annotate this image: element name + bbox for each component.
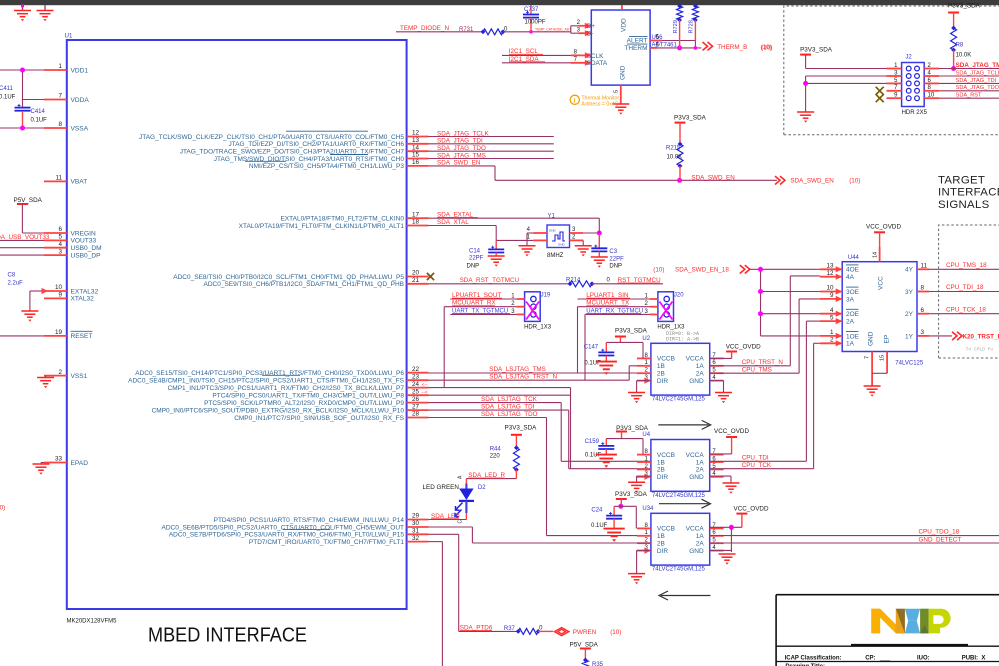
svg-text:GND: GND	[689, 474, 704, 481]
wire SDA_LED_R	[466, 478, 516, 480]
wire SDA_LSJTAG_TMS row22 to U2 2B	[429, 372, 651, 374]
wire J19 pin2 to U1 pin24	[443, 307, 445, 388]
svg-text:SDA_SWD_EN: SDA_SWD_EN	[437, 160, 481, 167]
svg-text:THERM: THERM	[624, 45, 647, 52]
svg-text:22PF: 22PF	[609, 256, 624, 262]
wire K20_TRST_B output	[929, 335, 952, 337]
wire ALERT-THERM tie	[694, 41, 696, 48]
wire GND_DETECT to edge	[710, 542, 999, 544]
svg-text:SDA_RST: SDA_RST	[956, 93, 982, 99]
U44 pin 1 1OE	[820, 335, 842, 337]
svg-text:CPU_TDI: CPU_TDI	[742, 455, 769, 462]
crystal Y1 body	[547, 225, 570, 248]
U56 pin 2 D+	[579, 25, 592, 27]
U44 pin 12 4A	[820, 276, 842, 278]
svg-text:R44: R44	[490, 446, 502, 452]
svg-text:VCC_OVDD: VCC_OVDD	[866, 224, 901, 231]
wire R731 to U56	[503, 31, 571, 33]
svg-text:4Y: 4Y	[905, 267, 914, 274]
svg-text:MBED INTERFACE: MBED INTERFACE	[148, 624, 307, 647]
svg-text:ADC0_SE15/TSI0_CH14/PTC1/SPI0_: ADC0_SE15/TSI0_CH14/PTC1/SPI0_PCS3/UART1…	[135, 370, 404, 377]
wire ALERT pullup	[662, 40, 695, 42]
wire J20 pin2 down to row22	[577, 307, 579, 373]
svg-text:<--: <--	[422, 382, 428, 388]
wire J20 pin3 down to row23	[584, 314, 586, 380]
svg-text:9: 9	[58, 292, 62, 299]
U1 pin 7 VDDA	[44, 99, 67, 101]
svg-text:11: 11	[921, 263, 928, 270]
svg-text:VCCB: VCCB	[657, 452, 675, 459]
svg-text:GND: GND	[558, 243, 566, 247]
svg-text:SDA_JTAG_TDI: SDA_JTAG_TDI	[437, 138, 483, 145]
svg-text:SDA_JTAG_TCLK: SDA_JTAG_TCLK	[956, 70, 999, 76]
svg-text:RESET: RESET	[71, 333, 93, 340]
U1 pin 27	[407, 409, 429, 411]
ground	[22, 5, 24, 11]
svg-text:CPU_TRST_N: CPU_TRST_N	[742, 359, 784, 366]
svg-text:R729: R729	[673, 20, 679, 33]
U34 pin 2 2B	[637, 542, 651, 544]
svg-text:2OE: 2OE	[846, 311, 860, 318]
svg-text:J19: J19	[541, 292, 551, 298]
ground	[628, 481, 645, 483]
buffer U44 74LVC125 body	[842, 262, 917, 352]
wire RST_TGTMCU	[592, 283, 663, 285]
svg-text:PTD4/SPI0_PCS1/UART0_RTS/FTM0_: PTD4/SPI0_PCS1/UART0_RTS/FTM0_CH4/EWM_IN…	[214, 517, 405, 524]
wire U4 DIR to ground	[637, 475, 651, 477]
svg-text:VSS1: VSS1	[71, 373, 88, 380]
wire SDA_JTAG_TMS to edge	[939, 68, 999, 70]
svg-text:Address = 0x4C: Address = 0x4C	[581, 102, 618, 108]
U44 pin 3 1Y	[917, 335, 929, 337]
svg-text:14: 14	[412, 144, 420, 151]
svg-text:INTERFACE: INTERFACE	[938, 187, 999, 199]
svg-text:ADC0_SE4B/CMP1_IN0/TSI0_CH15/P: ADC0_SE4B/CMP1_IN0/TSI0_CH15/PTC2/SPI0_P…	[128, 378, 405, 385]
U56 pin 8 SCLK	[571, 54, 592, 56]
U2 pin 3 DIR	[637, 380, 651, 382]
svg-text:VOUT33: VOUT33	[71, 238, 97, 245]
svg-text:ICAP Classification:: ICAP Classification:	[785, 655, 842, 661]
svg-text:2B: 2B	[657, 467, 665, 474]
dashed box target signals	[939, 225, 999, 358]
svg-text:3: 3	[921, 329, 925, 336]
svg-text:U1: U1	[65, 33, 73, 40]
svg-text:USB0_DM: USB0_DM	[71, 245, 102, 252]
capacitor C24	[613, 506, 615, 515]
svg-text:P3V3_SDA: P3V3_SDA	[674, 115, 707, 122]
wire SDA_JTAG_TCLK	[429, 136, 554, 138]
svg-text:14: 14	[873, 252, 879, 258]
U1 pin 12	[407, 136, 429, 138]
U44 pin 2 1A	[820, 342, 842, 344]
svg-text:SDA_JTAG_TDI: SDA_JTAG_TDI	[956, 78, 997, 84]
svg-text:C159: C159	[585, 439, 600, 445]
svg-text:GND: GND	[689, 548, 704, 555]
svg-text:CPU_TCK: CPU_TCK	[742, 462, 772, 469]
svg-text:To CPLD fo: To CPLD fo	[966, 347, 994, 353]
svg-text:DNP: DNP	[467, 264, 480, 270]
svg-text:26: 26	[412, 396, 420, 403]
wire SDA_LSJTAG_TRST_N row23 to U2 1B	[429, 379, 630, 381]
svg-text:LED GREEN: LED GREEN	[423, 484, 460, 491]
U1 pin 30	[407, 526, 429, 528]
node junction OE2	[758, 289, 763, 294]
svg-text:U2: U2	[642, 336, 650, 342]
U34 pin 8 VCCB	[637, 527, 651, 529]
svg-text:VDDA: VDDA	[71, 97, 90, 104]
flow arrow left below U34	[661, 595, 711, 597]
svg-text:5: 5	[58, 234, 62, 241]
svg-text:15: 15	[412, 152, 420, 159]
U44 pin 14 VCC top	[879, 247, 881, 262]
svg-text:IUO:: IUO:	[917, 655, 930, 661]
svg-text:SDA_LSJTAG_TRST_N: SDA_LSJTAG_TRST_N	[489, 374, 557, 381]
U56 pin 7 SDATA	[571, 62, 592, 64]
capacitor C14	[495, 240, 497, 249]
svg-text:P3V3_SDA: P3V3_SDA	[800, 46, 833, 53]
U44 pin 4 2OE	[820, 313, 842, 315]
U1 pin 6 VREGIN	[44, 232, 67, 234]
node junction C737	[529, 30, 533, 34]
ground	[612, 103, 629, 105]
resistor R215	[679, 123, 681, 144]
wire SDA_LSJTAG_TDI row27 to U4 2B	[429, 409, 569, 411]
svg-text:SDA_LSJTAG_TDI: SDA_LSJTAG_TDI	[481, 404, 535, 411]
ground	[488, 255, 505, 257]
svg-text:1A: 1A	[846, 341, 855, 348]
svg-text:DIR: DIR	[657, 474, 669, 481]
svg-text:PTC5/SPI0_SCK/LPTMR0_ALT2/I2S0: PTC5/SPI0_SCK/LPTMR0_ALT2/I2S0_RXD0/CMP0…	[204, 400, 404, 407]
svg-text:PTD7/CMT_IRO/UART0_TX/FTM0_CH7: PTD7/CMT_IRO/UART0_TX/FTM0_CH7/FTM0_FLT1	[249, 539, 404, 546]
node junction R8	[951, 66, 956, 71]
X no-connect J2 pin9	[876, 94, 884, 102]
svg-text:8: 8	[921, 285, 925, 292]
svg-text:4OE: 4OE	[846, 267, 860, 274]
U4 pin 7 VCCA	[710, 454, 724, 456]
svg-text:9: 9	[830, 292, 834, 299]
U1 pin 20	[407, 276, 429, 278]
resistor R214	[570, 281, 592, 287]
wire SDA_LSJTAG_TCK row26 to U4 1B	[429, 402, 562, 404]
thermal monitor U56 ADT7461 body	[591, 10, 650, 85]
svg-text:1: 1	[830, 329, 834, 336]
svg-text:___: ___	[879, 655, 891, 661]
svg-text:SDA_SWD_EN: SDA_SWD_EN	[790, 178, 834, 185]
wire LED anode	[465, 479, 467, 484]
U1 pin 32	[407, 541, 429, 543]
svg-text:R215: R215	[666, 146, 681, 152]
svg-text:GND: GND	[868, 331, 875, 346]
J2 pin 8	[924, 90, 939, 92]
ground	[596, 454, 617, 456]
U2 pin 6 1A	[710, 365, 724, 367]
wire VCC_OVDD to U4 VCCA	[731, 437, 733, 454]
resistor R44	[515, 435, 517, 448]
svg-text:JTAG_TCLK/SWD_CLK/EZP_CLK/TSI0: JTAG_TCLK/SWD_CLK/EZP_CLK/TSI0_CH1/PTA0/…	[139, 134, 404, 141]
U1 pin 3 USB0_DP	[44, 254, 67, 256]
svg-text:C14: C14	[469, 248, 481, 254]
svg-text:C147: C147	[584, 345, 599, 351]
resistor R728	[694, 5, 696, 6]
node junction OE1	[758, 267, 763, 272]
U1 pin 25	[407, 394, 429, 396]
wire LED cathode	[465, 501, 467, 513]
U44 pin 6 2Y	[917, 313, 929, 315]
svg-text:EPAD: EPAD	[71, 460, 89, 467]
wire EXTAL32 to ground	[30, 290, 44, 292]
svg-text:VCC_OVDD: VCC_OVDD	[714, 428, 749, 435]
svg-text:SDA_JTAG_TDO: SDA_JTAG_TDO	[956, 85, 999, 91]
svg-text:1OE: 1OE	[846, 333, 860, 340]
wire Y1 pin2 to ground	[582, 240, 584, 245]
svg-text:XTAL0/PTA19/FTM1_FLT0/FTM_CLKI: XTAL0/PTA19/FTM1_FLT0/FTM_CLKIN1/LPTMR0_…	[239, 223, 405, 230]
U44 pin 11 4Y	[917, 268, 929, 270]
wire CPU_TMS	[710, 372, 799, 374]
svg-text:10: 10	[55, 284, 63, 291]
svg-text:31: 31	[412, 528, 420, 535]
wire THERM to off-page	[657, 47, 701, 49]
ground EPAD	[41, 462, 44, 464]
svg-text:220: 220	[490, 454, 501, 460]
U56 pin 6 ALERT	[650, 40, 662, 42]
svg-text:74LVC2T45GM,125: 74LVC2T45GM,125	[652, 567, 706, 573]
wire USB0_DM	[0, 247, 44, 249]
node junction R729	[677, 45, 682, 50]
level shifter U2 74LVC2T45 body	[651, 343, 710, 395]
U2 DIR pin arrow	[644, 378, 651, 384]
svg-text:8: 8	[58, 121, 62, 128]
svg-text:ADC0_SE6B/PTD5/SPI0_PCS2/UART0: ADC0_SE6B/PTD5/SPI0_PCS2/UART0_CTS/UART0…	[162, 524, 405, 531]
title block border	[776, 594, 999, 596]
Y1 pin 1	[533, 239, 547, 241]
svg-text:EXTAL32: EXTAL32	[71, 288, 99, 295]
resistor R35	[584, 649, 586, 661]
resistor R37	[518, 628, 538, 634]
node junction crystal	[597, 231, 602, 236]
svg-text:2B: 2B	[657, 541, 665, 548]
wire SDA_JTAG_TDO to edge	[939, 90, 999, 92]
svg-text:SDA_LSJTAG_TMS: SDA_LSJTAG_TMS	[489, 366, 546, 373]
U56 pin VDD top	[621, 5, 623, 10]
svg-text:74LVC2T45GM,125: 74LVC2T45GM,125	[652, 493, 706, 499]
svg-text:25: 25	[412, 388, 420, 395]
svg-text:P5V_SDA: P5V_SDA	[570, 641, 599, 648]
svg-text:PTC4/SPI0_PCS0/UART1_TX/FTM0_C: PTC4/SPI0_PCS0/UART1_TX/FTM0_CH3/CMP1_OU…	[212, 393, 404, 400]
wire SDA_JTAG_TDI	[429, 143, 554, 145]
wire SDA_JTAG_TMS	[429, 158, 554, 160]
svg-text:24: 24	[412, 381, 420, 388]
wire LPUART1_SIN to J20 pin1	[578, 298, 650, 300]
node junction C24	[618, 504, 623, 509]
svg-text:CP:: CP:	[865, 655, 875, 661]
svg-text:C3: C3	[609, 249, 617, 255]
U1 pin 19 RESET	[44, 335, 67, 337]
U44 pin 5 2A	[820, 320, 842, 322]
svg-text:J20: J20	[674, 292, 684, 298]
svg-text:SIGNALS: SIGNALS	[938, 199, 990, 211]
svg-text:VDD: VDD	[621, 18, 628, 32]
svg-text:U34: U34	[642, 506, 654, 512]
svg-text:29: 29	[412, 513, 420, 520]
wire up to U44 4A	[789, 276, 791, 366]
svg-text:7: 7	[865, 356, 871, 359]
U1 pin 1 VDD1	[44, 69, 67, 71]
capacitor C159	[605, 439, 607, 446]
J2 pin 7	[887, 90, 902, 92]
U1 pin 33 EPAD	[44, 462, 67, 464]
J19 no-stuff X mark	[526, 302, 539, 320]
J2 pin 2	[924, 68, 939, 70]
svg-text:SDA_LSJTAG_TDO: SDA_LSJTAG_TDO	[481, 411, 538, 418]
J2 pin 1	[887, 68, 902, 70]
wire XTAL down to crystal	[495, 226, 497, 241]
J19 pin 3	[517, 313, 525, 315]
svg-text:2: 2	[58, 369, 62, 376]
svg-text:VCCA: VCCA	[686, 452, 705, 459]
X no-connect J2 pin7	[876, 87, 884, 95]
U34 pin 4 GND	[710, 550, 724, 552]
U56 pin 5 GND	[620, 85, 622, 104]
wire SDA_XTAL	[429, 225, 497, 227]
wire SDA_RST to edge	[939, 97, 999, 99]
svg-text:VCC: VCC	[878, 276, 885, 290]
svg-text:30: 30	[412, 520, 420, 527]
svg-text:U44: U44	[848, 255, 860, 261]
Y1 pin 4	[533, 232, 547, 234]
U2 pin 8 VCCB	[637, 357, 651, 359]
U44 pin 8 3Y	[917, 291, 929, 293]
svg-text:SDA_XTAL: SDA_XTAL	[437, 219, 469, 226]
U44 pin 10 3OE	[820, 291, 842, 293]
wire VCC_OVDD to U2 VCCA	[731, 352, 733, 359]
svg-text:J2: J2	[905, 55, 912, 61]
svg-text:SDA_SWD_EN_18: SDA_SWD_EN_18	[675, 267, 729, 274]
svg-text:1A: 1A	[696, 459, 705, 466]
svg-text:5: 5	[614, 90, 620, 93]
svg-text:74LVC125: 74LVC125	[895, 361, 924, 367]
U1 pin 10 EXTAL32	[44, 290, 67, 292]
wire SDA_LED to pin29	[429, 519, 467, 521]
svg-text:P5V_SDA: P5V_SDA	[14, 197, 43, 204]
U34 pin 3 DIR	[637, 550, 651, 552]
wire CPU_TCK	[710, 468, 814, 470]
svg-text:SDATA: SDATA	[587, 60, 608, 67]
svg-text:DIR: DIR	[657, 378, 669, 385]
wire U2 GND pin to ground	[710, 380, 724, 382]
svg-text:HDR 2X5: HDR 2X5	[902, 110, 928, 116]
svg-text:R214: R214	[566, 278, 581, 284]
J19 pin 1	[517, 298, 525, 300]
U4 pin 3 DIR	[637, 476, 651, 478]
svg-text:3: 3	[58, 248, 62, 255]
svg-text:1B: 1B	[657, 533, 665, 540]
svg-text:VCCB: VCCB	[657, 526, 675, 533]
wire P3V3 to U4 VCCB and C159	[621, 432, 623, 439]
U1 pin 2 VSS1	[44, 375, 67, 377]
svg-text:(10): (10)	[653, 267, 664, 274]
svg-text:8MHZ: 8MHZ	[547, 253, 564, 259]
wire CPU_TMS_18 output	[929, 268, 999, 270]
NXP logo	[871, 609, 950, 634]
svg-text:SDA_JTAG_TMS: SDA_JTAG_TMS	[437, 152, 486, 159]
wire UART_RX_TGTMCU to J20 pin3	[585, 313, 650, 315]
U1 pin 14	[407, 150, 429, 152]
wire SDA_RST_TGTMCU	[429, 283, 569, 285]
X no-connect pin 20	[427, 273, 434, 280]
svg-text:2B: 2B	[657, 371, 665, 378]
wire UART_TX_TGTMCU to J19 pin3	[450, 313, 516, 315]
wire SDA_SWD_EN_18 to U44 OE chain	[749, 268, 820, 270]
U4 pin 6 1A	[710, 461, 724, 463]
svg-text:C411: C411	[0, 86, 14, 92]
wire VDDA	[22, 99, 44, 101]
ground	[723, 482, 740, 484]
svg-text:4A: 4A	[846, 274, 855, 281]
svg-text:2A: 2A	[696, 467, 705, 474]
svg-text:TARGET: TARGET	[938, 174, 985, 186]
U1 pin 26	[407, 402, 429, 404]
svg-text:THERM_B: THERM_B	[717, 44, 747, 51]
wire CPU_TDO_18 to edge	[710, 535, 999, 537]
U1 pin 23	[407, 379, 429, 381]
ground	[603, 528, 624, 530]
U44 pin 7 GND bottom	[871, 352, 873, 387]
wire CPU_TDI_18 output	[929, 291, 999, 293]
off-page connector SDA_SWD_EN	[775, 176, 780, 184]
svg-text:VCC_OVDD: VCC_OVDD	[734, 506, 769, 513]
svg-text:28: 28	[412, 411, 420, 418]
U1 pin 16	[407, 165, 429, 167]
wire I2C1_SCL	[502, 54, 579, 56]
svg-text:3Y: 3Y	[905, 289, 914, 296]
node junction VSSA	[20, 126, 25, 131]
svg-text:SDA_USB_VOUT33: SDA_USB_VOUT33	[0, 234, 50, 241]
wire pin30 to U34 2B	[429, 526, 473, 528]
connector J19 HDR_1X3 body	[525, 292, 541, 322]
svg-text:-->: -->	[422, 390, 428, 396]
J2 pin 10	[924, 97, 939, 99]
svg-text:12: 12	[826, 270, 834, 277]
J20 pin 2	[650, 306, 658, 308]
svg-text:P3V3_SDA: P3V3_SDA	[615, 491, 648, 498]
svg-text:D-: D-	[587, 31, 594, 38]
wire P3V3 to U2 VCCB and C147	[619, 337, 621, 343]
svg-text:27: 27	[412, 403, 420, 410]
U1 pin 5 VOUT33	[44, 239, 67, 241]
svg-text:10: 10	[928, 93, 935, 99]
svg-text:DIR=1: A->B: DIR=1: A->B	[666, 336, 699, 342]
wire up to U44 2A	[805, 321, 807, 461]
node junction R215	[677, 178, 682, 183]
svg-text:R35: R35	[592, 662, 604, 666]
svg-text:SCLK: SCLK	[587, 53, 605, 60]
svg-text:12: 12	[412, 130, 420, 137]
U2 pin 4 GND	[710, 380, 724, 382]
svg-text:VBAT: VBAT	[71, 179, 88, 186]
U4 pin 2 2B	[637, 468, 651, 470]
MCU U1 MK20DX128VFM5 body	[67, 40, 407, 609]
wire VCC_OVDD to U34 VCCA	[741, 514, 743, 528]
svg-text:74LVC2T45GM,125: 74LVC2T45GM,125	[652, 397, 706, 403]
svg-text:1B: 1B	[657, 363, 665, 370]
svg-text:10: 10	[826, 285, 834, 292]
J2 pin 3	[887, 75, 902, 77]
ground	[44, 5, 46, 11]
U2 pin 2 2B	[637, 372, 651, 374]
connector J2 HDR 2X5 body	[902, 63, 925, 107]
U1 pin 21	[407, 283, 429, 285]
wire I2C1_SDA	[502, 62, 579, 64]
